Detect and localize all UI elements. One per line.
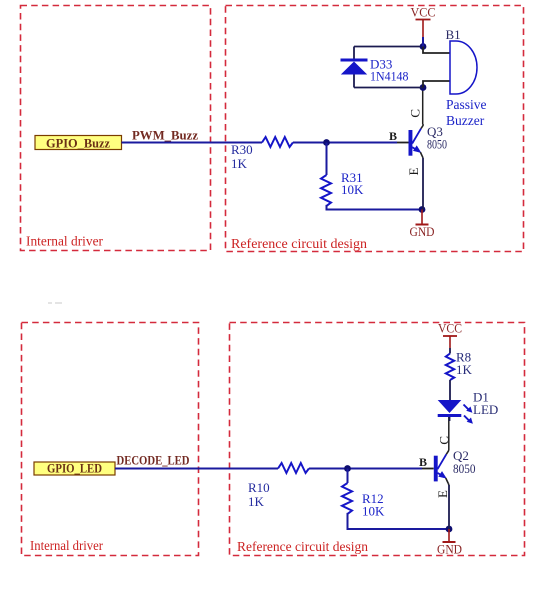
svg-text:GPIO_Buzz: GPIO_Buzz — [46, 136, 110, 151]
faint smudge artifact — [48, 302, 62, 304]
wire: junction down to R31 — [326, 143, 328, 176]
wire: R8 bottom to LED — [449, 380, 451, 400]
wire: buzzer top pin — [423, 47, 450, 54]
svg-text:VCC: VCC — [438, 321, 462, 336]
node: base junction (R31 tap) — [323, 139, 330, 146]
value label R12 / 10K — [362, 491, 385, 519]
label Passive Buzzer — [446, 97, 487, 128]
svg-text:8050: 8050 — [453, 461, 476, 476]
net label PWM_Buzz — [132, 128, 198, 143]
pin label E (Q2 emitter, rotated) — [435, 490, 450, 498]
svg-text:GND: GND — [437, 542, 462, 557]
label: Reference circuit design (top) — [231, 237, 367, 252]
wire: LED cathode to collector — [449, 417, 451, 421]
svg-text:C: C — [408, 109, 423, 118]
transistor Q2 — [434, 450, 449, 484]
svg-text:R30: R30 — [231, 142, 253, 157]
svg-text:E: E — [406, 167, 421, 175]
label B1 — [446, 27, 461, 42]
dashed box: Internal driver (top) — [21, 6, 211, 251]
svg-text:R10: R10 — [248, 480, 270, 495]
power VCC (bottom) — [438, 321, 462, 349]
wire: GPIO_Buzz port to R30 — [122, 142, 263, 144]
wire: VCC stub to R8 — [449, 348, 451, 354]
dashed box: Reference circuit design (bottom) — [230, 323, 525, 556]
power VCC (top) — [411, 5, 436, 38]
wire: R10 to Q2 base — [309, 468, 434, 470]
wire: VCC stub to junction — [422, 37, 424, 47]
label: Internal driver (bottom) — [30, 539, 103, 554]
svg-text:VCC: VCC — [411, 5, 436, 20]
svg-text:1N4148: 1N4148 — [370, 69, 409, 84]
svg-text:B1: B1 — [446, 27, 461, 42]
svg-text:B: B — [419, 455, 427, 469]
wire: Q3 emitter vertical — [422, 158, 424, 210]
node: emitter/ground junction (bottom) — [446, 526, 453, 533]
wire: R12 bottom to ground rail — [348, 513, 450, 529]
label: Reference circuit design (bottom) — [237, 540, 368, 555]
wire: Q2 emitter vertical to ground junction — [448, 485, 450, 529]
wire: GPIO_LED port to R10 — [115, 468, 278, 470]
wire: diode loop bottom — [354, 87, 423, 89]
net label DECODE_LED — [117, 453, 190, 468]
svg-text:Reference circuit design: Reference circuit design — [231, 237, 367, 252]
value label R8 / 1K — [456, 350, 473, 378]
value label D33 / 1N4148 — [370, 57, 409, 84]
label: Internal driver (top) — [26, 235, 103, 250]
pin label C (Q3 collector, rotated) — [408, 109, 423, 118]
resistor R12 — [342, 483, 352, 514]
pin label B (Q2 base) — [419, 455, 427, 469]
wire: Q2 collector vertical up to LED — [447, 417, 450, 485]
resistor R30 — [262, 137, 293, 147]
node: VCC junction (buzzer plus) — [420, 43, 427, 50]
svg-text:Buzzer: Buzzer — [446, 113, 485, 128]
svg-text:1K: 1K — [231, 156, 248, 171]
wire: junction down to R12 — [347, 469, 349, 484]
transistor Q3 — [409, 124, 424, 158]
wire: Q3 collector vertical — [422, 88, 424, 125]
svg-text:Internal driver: Internal driver — [30, 539, 103, 554]
wire: buzzer bottom pin — [423, 81, 450, 88]
value label R10 / 1K — [248, 480, 270, 509]
resistor R31 — [321, 175, 331, 206]
ground GND (bottom) — [437, 529, 462, 557]
pin label B (Q3 base) — [389, 129, 397, 143]
LED D1 (diode triangle, cathode bar, arrows) — [438, 400, 473, 424]
diode D33 (vertical, cathode up) — [341, 47, 368, 88]
dashed box: Internal driver (bottom) — [22, 323, 199, 556]
buzzer B1 body — [450, 41, 477, 94]
ground GND (top) — [410, 210, 435, 240]
port GPIO_Buzz — [35, 136, 122, 151]
port GPIO_LED — [34, 462, 115, 476]
label Q2 / 8050 — [453, 448, 476, 476]
svg-text:Passive: Passive — [446, 97, 487, 112]
svg-text:Internal driver: Internal driver — [26, 235, 103, 250]
node: emitter/ground junction — [419, 206, 426, 213]
svg-text:B: B — [389, 129, 397, 143]
svg-text:1K: 1K — [248, 494, 265, 509]
svg-text:E: E — [435, 490, 450, 498]
node: collector junction (buzzer minus) — [420, 84, 427, 91]
svg-text:10K: 10K — [341, 182, 364, 197]
pin label C (Q2 collector, rotated) — [437, 436, 452, 445]
svg-text:10K: 10K — [362, 504, 385, 519]
svg-text:LED: LED — [473, 402, 498, 417]
node: base junction (R12 tap) — [344, 465, 351, 472]
svg-text:1K: 1K — [456, 362, 473, 377]
svg-text:8050: 8050 — [427, 136, 447, 151]
value label D1 / LED — [473, 390, 498, 418]
svg-text:PWM_Buzz: PWM_Buzz — [132, 128, 198, 143]
value label R31 / 10K — [341, 170, 364, 197]
label Q3 / 8050 — [427, 124, 447, 151]
dashed box: Reference circuit design (top) — [226, 6, 524, 252]
resistor R8 — [446, 354, 454, 381]
svg-text:GPIO_LED: GPIO_LED — [47, 462, 102, 476]
svg-text:DECODE_LED: DECODE_LED — [117, 453, 190, 468]
value label R30 / 1K — [231, 142, 253, 171]
svg-text:Reference circuit design: Reference circuit design — [237, 540, 368, 555]
wire: diode loop top — [354, 46, 423, 48]
wire: R31 bottom to ground rail — [327, 205, 423, 210]
pin label E (Q3 emitter, rotated) — [406, 167, 421, 175]
svg-text:GND: GND — [410, 224, 435, 239]
resistor R10 — [278, 463, 309, 473]
wire: R30 to Q3 base — [293, 142, 409, 144]
